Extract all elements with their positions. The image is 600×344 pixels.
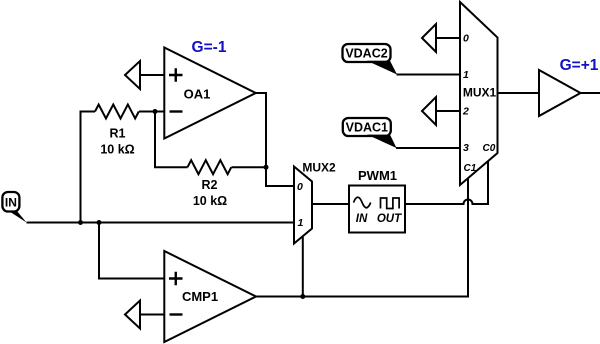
- wire R1 to OA1 minus: [139, 111, 164, 113]
- OA1 minus sign: [170, 110, 183, 112]
- wire arrow to pin 2: [436, 110, 460, 112]
- junction dot at R1 branch: [78, 220, 83, 225]
- PWM1 box: [349, 186, 405, 233]
- wire PWM1 OUT to MUX1 C0 (hops over C1 wire): [405, 161, 488, 204]
- input arrow at CMP1 -: [125, 301, 140, 329]
- wire arrow to pin 0: [436, 37, 460, 39]
- wire vertical R1 to R2: [155, 112, 188, 168]
- buffer amplifier G=+1: [539, 70, 581, 116]
- node VDAC2 flag: [343, 44, 391, 62]
- op-amp OA1: [164, 48, 256, 139]
- svg-text:IN: IN: [356, 213, 368, 225]
- wire VDAC1 to MUX1 pin 3: [396, 147, 460, 149]
- resistor R1: [95, 105, 139, 119]
- wire buffer output: [581, 92, 600, 94]
- junction dot OA1 output / R2: [264, 165, 269, 170]
- input arrow at MUX1 pin 2: [422, 97, 436, 125]
- svg-text:OA1: OA1: [184, 87, 211, 102]
- svg-text:C0: C0: [483, 143, 496, 154]
- svg-text:0: 0: [297, 181, 303, 193]
- wire arrow to OA1 +: [140, 74, 164, 76]
- wire VDAC2 to MUX1 pin 1: [397, 74, 461, 76]
- svg-text:VDAC2: VDAC2: [345, 47, 387, 61]
- OA1 plus sign: [169, 68, 183, 82]
- wire IN row: [27, 222, 295, 224]
- svg-text:MUX1: MUX1: [463, 86, 497, 100]
- input arrow at MUX1 pin 0: [422, 24, 436, 52]
- svg-text:IN: IN: [5, 196, 17, 210]
- junction dot R1/R2: [153, 109, 158, 114]
- svg-text:OUT: OUT: [377, 213, 402, 225]
- svg-text:1: 1: [463, 69, 469, 81]
- svg-text:R1: R1: [110, 127, 126, 141]
- svg-text:R2: R2: [202, 178, 218, 192]
- svg-text:3: 3: [463, 142, 469, 154]
- resistor R2: [188, 160, 232, 174]
- node VDAC1 flag: [343, 118, 391, 136]
- svg-text:2: 2: [462, 106, 469, 118]
- svg-text:VDAC1: VDAC1: [346, 121, 388, 135]
- CMP1 plus sign: [169, 272, 183, 286]
- svg-text:CMP1: CMP1: [182, 289, 218, 304]
- CMP1 minus sign: [170, 313, 183, 315]
- node IN flag: [2, 192, 19, 212]
- svg-text:C1: C1: [464, 163, 477, 174]
- junction dot CMP1 branch: [97, 220, 102, 225]
- mux MUX1: [460, 2, 498, 185]
- svg-text:G=-1: G=-1: [192, 39, 227, 56]
- node VDAC1 pennant: [367, 135, 397, 148]
- wire R2 to OA1 output node: [232, 166, 267, 168]
- wire CMP1 output to MUX1 C1: [256, 178, 468, 297]
- mux MUX2: [294, 167, 312, 244]
- wire MUX2 select: [302, 237, 304, 297]
- PWM1 sine icon: [354, 197, 371, 208]
- svg-text:10 kΩ: 10 kΩ: [100, 142, 134, 156]
- node IN pennant: [8, 211, 27, 223]
- svg-text:0: 0: [463, 33, 469, 45]
- junction dot MUX2 select: [300, 294, 305, 299]
- wire arrow to CMP1 -: [140, 314, 164, 316]
- svg-text:PWM1: PWM1: [358, 168, 397, 183]
- wire to CMP1 +: [99, 223, 164, 279]
- wire OA1 output to MUX2 pin 0: [256, 93, 294, 186]
- wire MUX2 out to PWM1: [312, 203, 349, 205]
- comparator CMP1: [164, 251, 256, 342]
- svg-text:G=+1: G=+1: [560, 57, 599, 74]
- svg-text:1: 1: [298, 217, 304, 229]
- svg-text:MUX2: MUX2: [302, 160, 336, 174]
- input arrow at OA1 +: [125, 61, 140, 89]
- node VDAC2 pennant: [367, 61, 397, 75]
- PWM1 square wave icon: [381, 198, 400, 209]
- wire vertical to R1: [81, 112, 96, 223]
- wire MUX1 out to buffer: [498, 92, 540, 94]
- svg-text:10 kΩ: 10 kΩ: [193, 194, 227, 208]
